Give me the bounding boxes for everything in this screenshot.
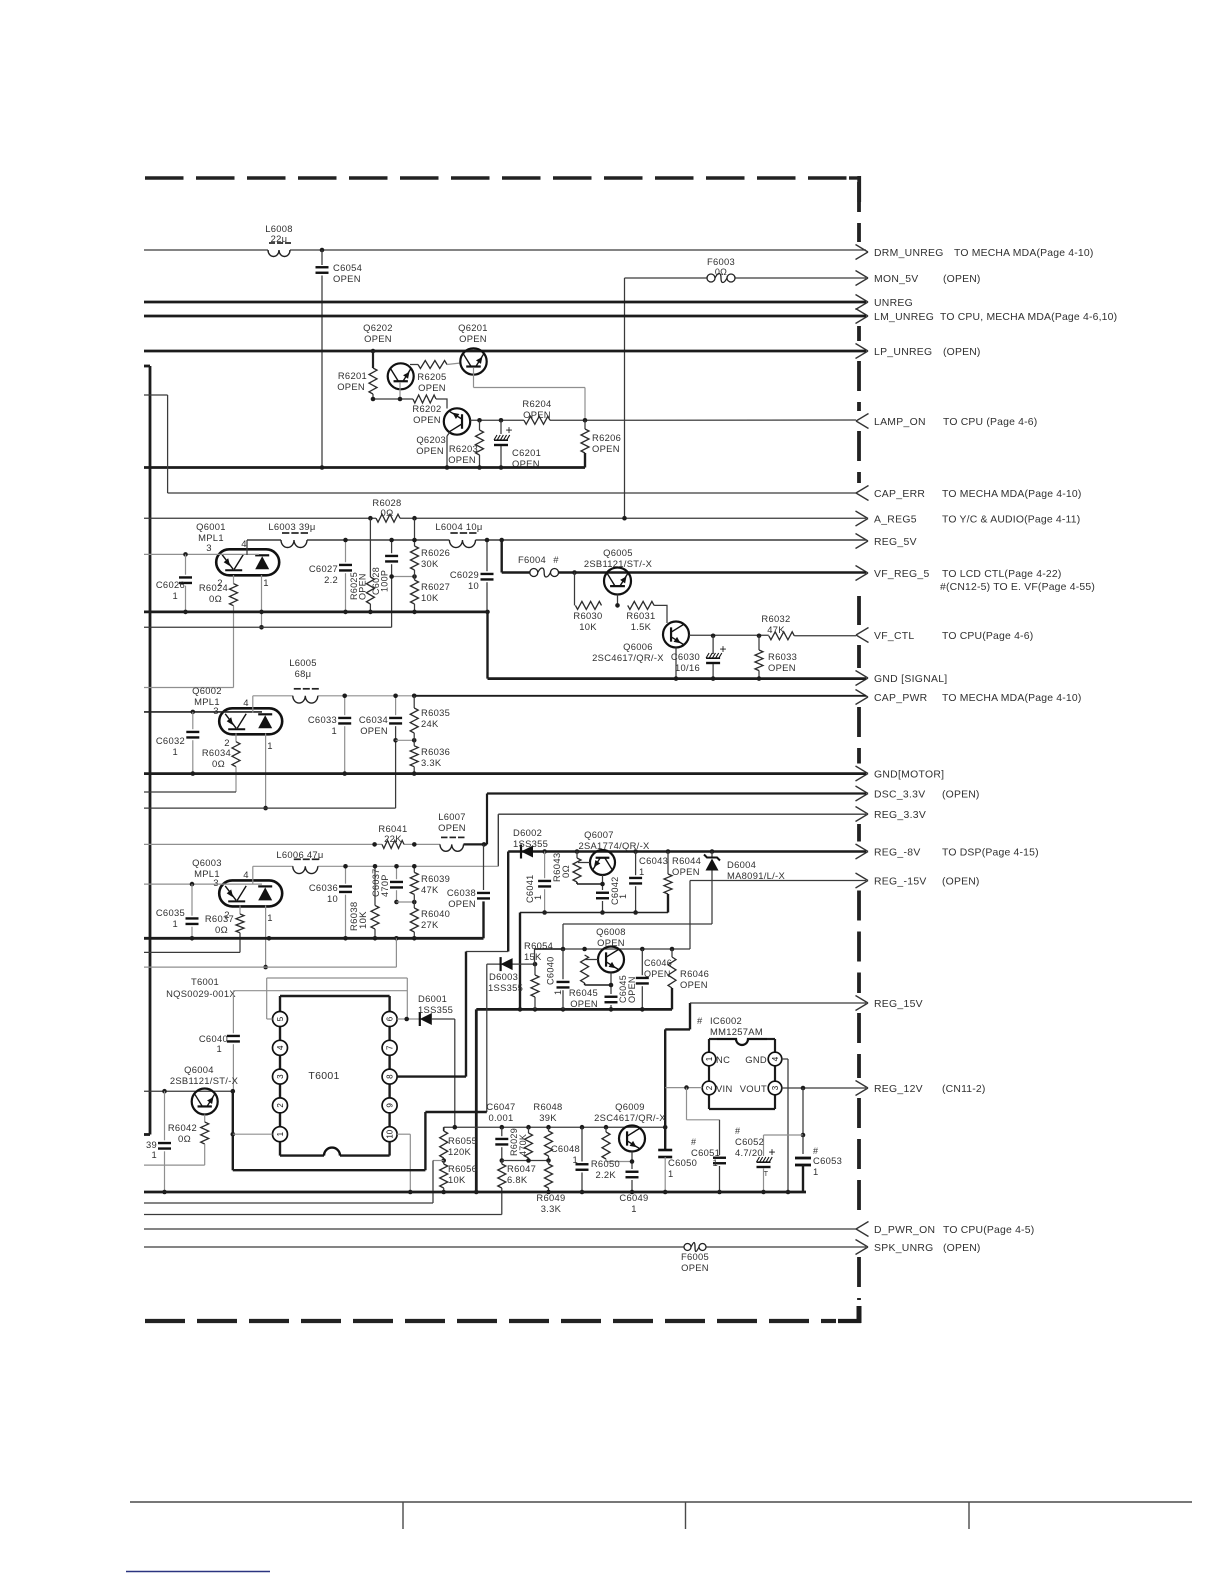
svg-text:L6005: L6005 — [289, 657, 317, 668]
wire VF_REG_5 — [559, 571, 867, 573]
capacitor C6048 — [581, 1127, 583, 1161]
svg-text:1: 1 — [216, 1043, 222, 1054]
wire pin5 riser — [266, 978, 268, 1019]
svg-text:0Ω: 0Ω — [381, 508, 394, 519]
svg-text:2SC4617/QR/-X: 2SC4617/QR/-X — [592, 652, 664, 663]
svg-text:2SB1121/ST/-X: 2SB1121/ST/-X — [170, 1075, 239, 1086]
wire left vertical main — [144, 365, 150, 368]
resistor R6054 — [534, 949, 536, 964]
svg-text:68μ: 68μ — [295, 668, 312, 679]
wire R6041 row — [144, 843, 382, 845]
wire C6029 gnd tie — [486, 612, 488, 679]
capacitor C6201 electrolytic — [500, 420, 502, 434]
wire REG_-8V — [508, 850, 866, 852]
wire LM_UNREG — [144, 315, 866, 318]
svg-text:NQS0029-001X: NQS0029-001X — [166, 988, 236, 999]
svg-text:#: # — [697, 1015, 703, 1026]
svg-text:MM1257AM: MM1257AM — [710, 1026, 763, 1037]
capacitor C6053 — [802, 1135, 804, 1154]
resistor R6045 — [581, 955, 589, 983]
capacitor C6026 — [185, 554, 187, 574]
svg-text:TO LCD CTL(Page 4-22): TO LCD CTL(Page 4-22) — [942, 569, 1062, 580]
svg-text:120K: 120K — [448, 1146, 472, 1157]
svg-text:OPEN: OPEN — [413, 414, 441, 425]
wire ground bus Q6001 area — [144, 611, 488, 614]
transistor Q6203 — [444, 408, 470, 434]
zener D6004 — [710, 849, 715, 854]
svg-text:30K: 30K — [421, 558, 439, 569]
svg-text:C6026: C6026 — [156, 579, 185, 590]
svg-text:1: 1 — [533, 895, 543, 900]
capacitor C6051 — [719, 1120, 721, 1155]
footer rule — [130, 1501, 1192, 1503]
svg-text:R6201: R6201 — [338, 370, 367, 381]
svg-text:R6056: R6056 — [448, 1163, 477, 1174]
capacitor C6052 electrolytic — [763, 1135, 765, 1156]
svg-text:3.3K: 3.3K — [541, 1203, 562, 1214]
svg-text:VF_REG_5: VF_REG_5 — [874, 569, 930, 580]
svg-text:1: 1 — [267, 741, 273, 752]
svg-text:10K: 10K — [448, 1174, 466, 1185]
wire Q6008 collector row — [535, 948, 691, 950]
dashed border right — [857, 182, 861, 212]
wire LAMP_ON — [470, 419, 524, 421]
svg-text:1.5K: 1.5K — [631, 621, 652, 632]
wire R6031 to Q6006 — [654, 605, 667, 623]
svg-text:10K: 10K — [358, 911, 369, 929]
resistor R6047 — [501, 1161, 503, 1165]
svg-text:TO CPU(Page 4-5): TO CPU(Page 4-5) — [943, 1225, 1034, 1236]
svg-text:OPEN: OPEN — [358, 573, 368, 600]
resistor R6046 — [671, 949, 673, 957]
wire C6037 R6039 junction — [397, 901, 415, 903]
svg-text:R6030: R6030 — [573, 610, 602, 621]
node GND [SIGNAL] — [856, 671, 869, 679]
svg-text:R6032: R6032 — [761, 613, 790, 624]
svg-text:(OPEN): (OPEN) — [943, 274, 981, 285]
svg-text:#: # — [691, 1137, 696, 1147]
svg-text:TO Y/C & AUDIO(Page 4-11): TO Y/C & AUDIO(Page 4-11) — [942, 515, 1080, 526]
svg-text:R6047: R6047 — [507, 1163, 536, 1174]
svg-text:1: 1 — [331, 725, 337, 736]
svg-text:1SS355: 1SS355 — [488, 982, 523, 993]
svg-text:F6005: F6005 — [681, 1251, 709, 1262]
wire D_PWR_ON — [144, 1228, 856, 1230]
svg-text:R6036: R6036 — [421, 746, 450, 757]
node F6004 out — [572, 570, 577, 575]
resistor R6202 — [413, 395, 436, 403]
svg-text:VIN: VIN — [716, 1083, 733, 1094]
svg-text:Q6007: Q6007 — [584, 829, 614, 840]
svg-text:D6002: D6002 — [513, 827, 542, 838]
svg-text:R6040: R6040 — [421, 908, 450, 919]
svg-text:2.2: 2.2 — [324, 574, 338, 585]
node REG_5V — [856, 534, 869, 542]
svg-text:R6034: R6034 — [202, 747, 231, 758]
svg-text:1: 1 — [172, 746, 178, 757]
wire pin6 to D6001 — [397, 1018, 420, 1020]
node C6026 top — [183, 552, 188, 557]
svg-text:5: 5 — [276, 1016, 285, 1021]
wire L6006 row — [253, 865, 293, 867]
wire under T6001 rail — [233, 1169, 426, 1171]
fuse F6004 — [530, 569, 538, 577]
node DSC_3.3V — [856, 786, 869, 794]
svg-text:OPEN: OPEN — [448, 898, 476, 909]
wire Q6001 pin3 — [144, 553, 259, 555]
node REG_12V — [856, 1081, 869, 1089]
svg-text:TO MECHA MDA(Page 4-10): TO MECHA MDA(Page 4-10) — [942, 489, 1082, 500]
svg-text:MON_5V: MON_5V — [874, 274, 919, 285]
capacitor C6039 39 — [164, 1091, 166, 1140]
svg-text:C6040: C6040 — [546, 956, 556, 985]
svg-text:DSC_3.3V: DSC_3.3V — [874, 790, 926, 801]
wire pin1 T6001 — [233, 1133, 273, 1135]
resistor R6026 — [414, 518, 416, 546]
svg-text:R6024: R6024 — [199, 582, 228, 593]
svg-text:+: + — [505, 423, 512, 437]
wire VIN to C6051 — [686, 1088, 688, 1120]
capacitor C6027 — [345, 540, 347, 562]
svg-text:24K: 24K — [421, 718, 439, 729]
svg-text:VF_CTL: VF_CTL — [874, 631, 915, 642]
wire pin8 T6001 — [397, 1075, 466, 1077]
svg-text:LP_UNREG: LP_UNREG — [874, 347, 932, 358]
wire GND pin4 — [781, 1058, 788, 1060]
svg-text:10/16: 10/16 — [675, 662, 700, 673]
capacitor C6029 — [486, 540, 488, 571]
svg-text:OPEN: OPEN — [416, 445, 444, 456]
wire CAP_ERR — [168, 492, 856, 494]
node SPK_UNRG — [856, 1240, 869, 1248]
dashed border top — [145, 176, 184, 179]
svg-text:C6046: C6046 — [644, 958, 672, 968]
footer tick 1 — [402, 1502, 404, 1529]
pin 4 IC6002 GND — [768, 1052, 782, 1066]
wire Q6004 row — [144, 1090, 233, 1092]
svg-text:1: 1 — [263, 578, 269, 589]
resistor R6055 — [443, 1127, 445, 1131]
svg-text:Q6008: Q6008 — [596, 926, 626, 937]
svg-text:C6033: C6033 — [308, 714, 337, 725]
svg-text:C6053: C6053 — [813, 1155, 842, 1166]
node LAMP_ON — [856, 414, 869, 422]
svg-text:OPEN: OPEN — [768, 662, 796, 673]
svg-text:3: 3 — [276, 1074, 285, 1079]
wire C6040 top route — [233, 990, 407, 992]
node R6203 top — [477, 418, 482, 423]
resistor R6204 — [524, 416, 550, 424]
svg-text:L6007: L6007 — [438, 811, 466, 822]
wire GND SIGNAL bus — [488, 677, 867, 680]
wire Q6201 base path — [473, 368, 475, 388]
wire UNREG — [144, 301, 866, 304]
svg-text:OPEN: OPEN — [333, 273, 361, 284]
svg-text:OPEN: OPEN — [438, 822, 466, 833]
capacitor C6036 — [345, 866, 347, 883]
wire L6007 out — [464, 843, 488, 845]
svg-text:10: 10 — [386, 1129, 395, 1138]
svg-text:1: 1 — [172, 590, 178, 601]
resistor R6033 — [757, 634, 762, 639]
wire CAP_PWR — [253, 695, 293, 697]
svg-text:T6001: T6001 — [191, 976, 219, 987]
svg-text:4: 4 — [243, 870, 249, 881]
svg-text:1: 1 — [151, 1149, 157, 1160]
wire R6037 return — [144, 951, 240, 953]
svg-text:LM_UNREG: LM_UNREG — [874, 312, 934, 323]
svg-text:R6031: R6031 — [626, 610, 655, 621]
svg-text:1: 1 — [631, 1203, 637, 1214]
svg-text:470P: 470P — [380, 874, 390, 897]
svg-text:F6003: F6003 — [707, 256, 735, 267]
resistor R6040 — [413, 902, 415, 908]
pin 7 T6001 — [382, 1040, 397, 1055]
wire GND MOTOR bus — [144, 772, 866, 775]
wire R6047 return — [144, 1214, 502, 1216]
wire C6040b top route — [535, 948, 564, 950]
svg-text:R6027: R6027 — [421, 581, 450, 592]
resistor R6205 — [410, 364, 418, 366]
capacitor C6028 — [391, 540, 393, 553]
node GND[MOTOR] — [856, 766, 869, 774]
svg-text:VOUT: VOUT — [740, 1083, 767, 1094]
svg-text:L6004 10μ: L6004 10μ — [435, 521, 482, 532]
wire C6034 to R6035 junction — [396, 739, 415, 741]
svg-text:1: 1 — [705, 1056, 714, 1061]
wire pin5 top row — [267, 977, 408, 979]
svg-text:0Ω: 0Ω — [715, 267, 727, 277]
svg-text:TO MECHA MDA(Page 4-10): TO MECHA MDA(Page 4-10) — [942, 693, 1082, 704]
node UNREG — [856, 295, 869, 303]
resistor R6042 — [204, 1115, 206, 1123]
svg-text:A_REG5: A_REG5 — [874, 515, 917, 526]
svg-text:C6052: C6052 — [735, 1136, 764, 1147]
svg-text:6.8K: 6.8K — [507, 1174, 528, 1185]
svg-text:1: 1 — [668, 1168, 674, 1179]
svg-text:R6055: R6055 — [448, 1135, 477, 1146]
capacitor C6045 — [605, 996, 618, 998]
capacitor C6054 — [321, 250, 323, 265]
capacitor C6049 — [626, 1171, 639, 1173]
capacitor C6041 — [544, 852, 546, 879]
diode D6003 row — [487, 963, 535, 965]
resistor R6024 — [233, 575, 235, 584]
svg-text:R6206: R6206 — [592, 432, 621, 443]
wire MON_5V — [625, 277, 708, 279]
svg-text:0Ω: 0Ω — [212, 759, 225, 770]
svg-text:3: 3 — [771, 1085, 780, 1090]
wire R6056 tap return — [433, 1160, 444, 1162]
svg-text:NC: NC — [716, 1054, 730, 1065]
wire Q6007 collector to C6042 — [577, 883, 603, 885]
wire Q6003 pin1 drop — [265, 906, 267, 968]
wire C6028 to R6026 junction — [392, 576, 415, 578]
svg-text:Q6001: Q6001 — [196, 521, 226, 532]
wire R6034 return — [144, 791, 236, 793]
node VF_CTL — [856, 628, 869, 636]
wire Q6008 emitter — [610, 973, 612, 995]
wire C6034 return — [144, 807, 396, 809]
wire REG5V to VF_REG_5 — [499, 538, 504, 543]
svg-text:47K: 47K — [421, 884, 439, 895]
svg-text:OPEN: OPEN — [627, 976, 637, 1003]
wire D6004 to REG_-15V — [690, 923, 712, 925]
svg-text:R6202: R6202 — [412, 403, 441, 414]
capacitor C6043 — [633, 849, 638, 854]
svg-text:10K: 10K — [579, 621, 597, 632]
svg-text:Q6002: Q6002 — [192, 685, 222, 696]
pin 6 T6001 — [382, 1012, 397, 1027]
svg-text:(OPEN): (OPEN) — [942, 877, 980, 888]
wire R6042 return — [144, 1164, 205, 1166]
svg-text:1: 1 — [172, 918, 178, 929]
wire to main bus — [475, 1009, 478, 1192]
resistor R6201 — [372, 351, 374, 368]
resistor R6050 — [605, 1127, 607, 1132]
node R6054 top — [533, 962, 538, 967]
wire Q6003 pin3 — [144, 883, 262, 885]
svg-text:4: 4 — [241, 539, 247, 550]
svg-text:OPEN: OPEN — [680, 979, 708, 990]
svg-text:LAMP_ON: LAMP_ON — [874, 417, 926, 428]
svg-text:C6036: C6036 — [309, 882, 338, 893]
svg-text:0Ω: 0Ω — [215, 925, 228, 936]
svg-text:OPEN: OPEN — [681, 1262, 709, 1273]
wire Q6001 pin4 riser — [246, 540, 248, 555]
pin 2 T6001 — [273, 1098, 288, 1113]
svg-text:R6049: R6049 — [536, 1192, 565, 1203]
svg-text:R6204: R6204 — [522, 398, 551, 409]
svg-text:IC6002: IC6002 — [710, 1015, 742, 1026]
svg-text:Q6203: Q6203 — [416, 434, 446, 445]
wire REG_15V routing — [689, 1003, 691, 1029]
inductor L6004 — [449, 540, 475, 548]
svg-text:C6049: C6049 — [619, 1192, 648, 1203]
wire R6202 to Q6203 base — [436, 399, 447, 409]
wire VF_CTL — [689, 634, 769, 636]
wire Q6002 pin1 drop — [265, 733, 267, 808]
node junction C6054 top — [320, 248, 325, 253]
svg-text:R6037: R6037 — [205, 913, 234, 924]
svg-text:10K: 10K — [421, 592, 439, 603]
resistor R6044 — [666, 849, 671, 854]
svg-text:R6050: R6050 — [591, 1158, 620, 1169]
wire LP_UNREG — [144, 350, 866, 353]
wire A_REG5 — [144, 517, 376, 519]
wire DSC_3.3V — [487, 792, 866, 794]
inductor L6005 — [293, 696, 318, 703]
wire REG_3.3V — [498, 813, 866, 815]
node MON_5V — [856, 271, 869, 279]
resistor R6203 — [479, 420, 481, 430]
capacitor C6035 — [191, 884, 193, 916]
wire local ground bus — [476, 1008, 672, 1011]
svg-text:REG_15V: REG_15V — [874, 999, 923, 1010]
wire ground bus Q6003 area — [144, 937, 484, 940]
wire C6028 return — [144, 626, 392, 628]
resistor R6041 — [382, 840, 404, 848]
resistor R6039 — [413, 866, 415, 872]
svg-text:R6033: R6033 — [768, 651, 797, 662]
wire Q6007 ground rail — [520, 912, 668, 914]
pin 3 IC6002 VOUT — [768, 1081, 782, 1095]
wire D6003 branch — [425, 1111, 486, 1113]
wire mid row — [502, 1160, 549, 1162]
pin 4 T6001 — [273, 1040, 288, 1055]
resistor R6056 — [443, 1161, 445, 1165]
resistor R6030 — [575, 601, 601, 609]
svg-text:1: 1 — [276, 1131, 285, 1136]
node CAP_PWR — [856, 690, 869, 698]
svg-text:MPL1: MPL1 — [198, 532, 224, 543]
capacitor C6033 — [344, 696, 346, 715]
svg-text:TO CPU, MECHA MDA(Page 4-6,: TO CPU, MECHA MDA(Page 4-6,10) — [940, 312, 1117, 323]
svg-text:OPEN: OPEN — [597, 937, 625, 948]
node C6035 top — [190, 882, 195, 887]
svg-text:GND [SIGNAL]: GND [SIGNAL] — [874, 674, 947, 685]
svg-text:OPEN: OPEN — [360, 725, 388, 736]
node LP_UNREG — [856, 344, 869, 352]
svg-text:TO CPU(Page 4-6): TO CPU(Page 4-6) — [942, 631, 1033, 642]
wire REG-8V branch row — [466, 951, 508, 953]
svg-text:6: 6 — [386, 1016, 395, 1021]
capacitor C6050 — [658, 1149, 672, 1152]
svg-text:(OPEN): (OPEN) — [942, 790, 980, 801]
svg-text:R6046: R6046 — [680, 968, 709, 979]
wire Q6005 base drop — [574, 573, 576, 606]
wire VOUT REG_12V — [781, 1087, 866, 1089]
svg-text:C6201: C6201 — [512, 447, 541, 458]
svg-text:#: # — [553, 554, 559, 565]
wire lamp ground bus — [144, 466, 585, 469]
node REG_3.3V — [856, 807, 869, 815]
svg-text:F6004: F6004 — [518, 554, 546, 565]
pin 10 T6001 — [382, 1127, 397, 1142]
pin 9 T6001 — [382, 1098, 397, 1113]
node REG_-8V — [856, 844, 869, 852]
svg-text:Q6003: Q6003 — [192, 857, 222, 868]
svg-text:100P: 100P — [380, 570, 390, 592]
svg-text:C6027: C6027 — [309, 563, 338, 574]
footer tick 2 — [685, 1502, 687, 1529]
svg-text:C6048: C6048 — [551, 1143, 580, 1154]
wire node base R6202 — [373, 398, 413, 400]
svg-text:OPEN: OPEN — [448, 454, 476, 465]
svg-text:2.2K: 2.2K — [596, 1169, 617, 1180]
svg-text:47K: 47K — [767, 624, 785, 635]
node LP_UNREG tap R6201 — [371, 349, 376, 354]
svg-text:1: 1 — [553, 990, 563, 995]
svg-text:C6030: C6030 — [671, 651, 700, 662]
svg-text:10: 10 — [327, 893, 338, 904]
wire VOUT drop — [802, 1088, 804, 1135]
wire Q6009 emitter — [631, 1152, 633, 1170]
svg-text:Q6201: Q6201 — [458, 322, 488, 333]
svg-text:1: 1 — [618, 894, 628, 899]
wire stub left — [144, 1133, 150, 1136]
svg-text:GND[MOTOR]: GND[MOTOR] — [874, 770, 944, 781]
svg-text:D6003: D6003 — [489, 971, 518, 982]
svg-text:(OPEN): (OPEN) — [943, 347, 981, 358]
inductor L6007 — [440, 844, 464, 851]
wire Q6003 pin1 return — [144, 966, 396, 968]
svg-text:8: 8 — [386, 1074, 395, 1079]
node junction R6206 — [583, 418, 588, 423]
svg-text:1: 1 — [267, 913, 273, 924]
footer tick 3 — [968, 1502, 970, 1529]
svg-text:39K: 39K — [539, 1112, 557, 1123]
